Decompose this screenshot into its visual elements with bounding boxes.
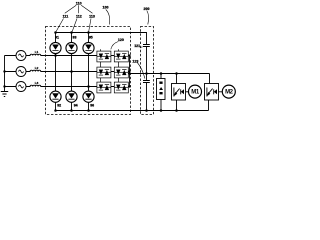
svg-text:L1: L1 bbox=[35, 50, 39, 54]
svg-text:L3: L3 bbox=[35, 81, 39, 85]
svg-text:95: 95 bbox=[89, 36, 93, 40]
svg-text:123: 123 bbox=[132, 59, 138, 63]
svg-text:110: 110 bbox=[76, 1, 82, 5]
svg-text:120: 120 bbox=[118, 38, 124, 42]
svg-text:112: 112 bbox=[76, 15, 82, 19]
svg-text:M2: M2 bbox=[225, 90, 234, 96]
svg-text:100: 100 bbox=[103, 5, 109, 9]
svg-text:113: 113 bbox=[89, 15, 95, 19]
svg-text:L2: L2 bbox=[35, 66, 39, 70]
svg-text:93: 93 bbox=[73, 36, 77, 40]
svg-text:121: 121 bbox=[134, 44, 140, 48]
svg-text:92: 92 bbox=[57, 104, 61, 108]
svg-text:94: 94 bbox=[74, 104, 78, 108]
svg-text:M1: M1 bbox=[191, 90, 200, 96]
svg-text:111: 111 bbox=[63, 15, 69, 19]
svg-text:91: 91 bbox=[55, 36, 59, 40]
svg-text:96: 96 bbox=[90, 104, 94, 108]
svg-text:200: 200 bbox=[144, 7, 150, 11]
